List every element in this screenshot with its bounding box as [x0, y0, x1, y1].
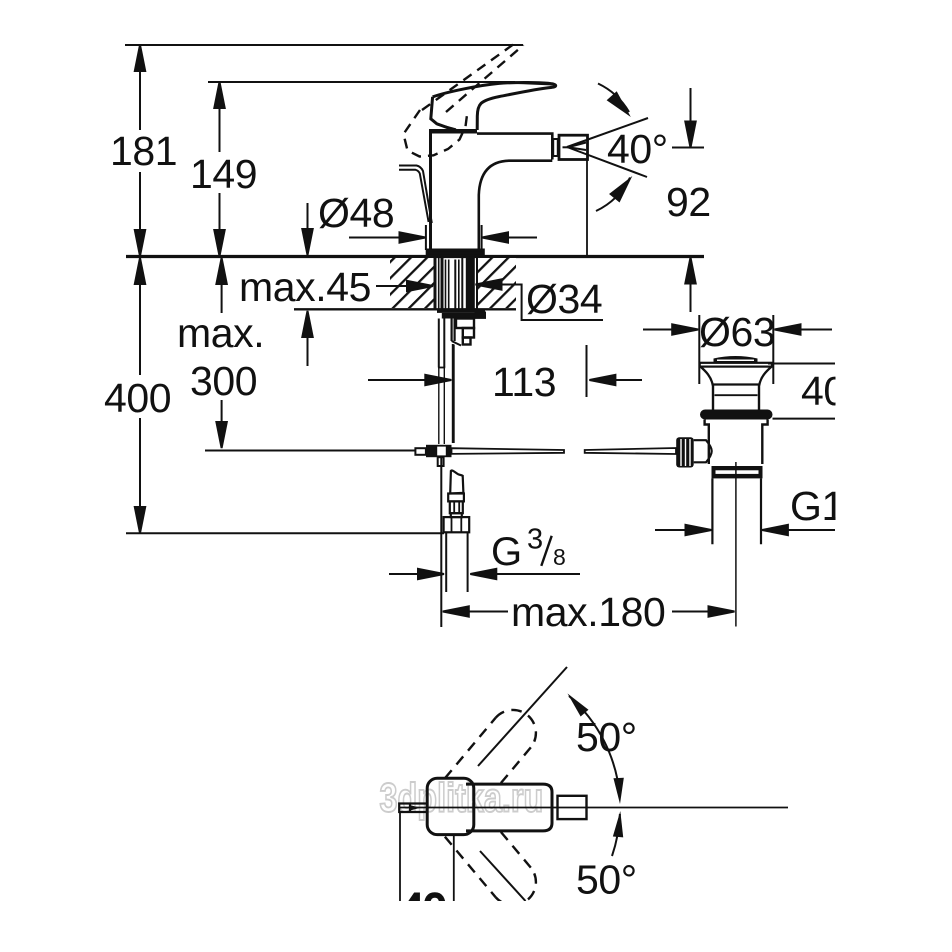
deck hatch left — [390, 258, 434, 308]
dimension 113 — [368, 344, 642, 443]
dimension line top 181 level — [125, 44, 523, 46]
svg-text:max.: max. — [177, 310, 264, 356]
hose below — [444, 470, 470, 592]
dimension max.300 vertical — [216, 258, 226, 448]
svg-text:8: 8 — [553, 544, 566, 570]
plan body square — [427, 778, 474, 834]
extension lines right 40 — [768, 364, 835, 419]
plan dashed lobe upper — [445, 710, 536, 784]
plan centerline — [400, 807, 788, 809]
dimension max.45 arrows — [302, 203, 433, 366]
spray cone 40deg — [563, 118, 649, 177]
plan arc lower — [612, 811, 625, 856]
shank through deck — [435, 258, 477, 309]
svg-text:max.180: max.180 — [511, 589, 665, 635]
J hook left — [399, 166, 432, 224]
svg-text:149: 149 — [190, 151, 257, 197]
svg-text:300: 300 — [190, 358, 257, 404]
svg-text:G: G — [491, 530, 522, 574]
FAUCET SIDE VIEW — [399, 41, 773, 627]
svg-text:3: 3 — [527, 524, 543, 556]
svg-text:92: 92 — [666, 179, 711, 225]
dimension 400 vertical — [135, 258, 145, 533]
plan 50 line upper — [478, 667, 567, 766]
dimension max.180 — [441, 455, 734, 627]
svg-text:max.45: max.45 — [239, 264, 371, 310]
plan lever — [466, 784, 552, 831]
handle lever solid — [431, 83, 556, 130]
dimension G1 arrows — [655, 525, 835, 535]
under deck fittings — [437, 309, 486, 444]
pull rod coupler — [415, 445, 451, 466]
dimension G3/8 arrows — [389, 569, 580, 579]
aerator box — [553, 135, 587, 255]
dimension Ø48 — [349, 225, 537, 250]
svg-text:Ø48: Ø48 — [318, 190, 394, 236]
svg-text:113: 113 — [492, 359, 556, 405]
deck hatch right — [478, 258, 517, 308]
plan nozzle left — [399, 804, 427, 813]
deck surface line — [126, 255, 704, 258]
plan dashed lobe lower — [445, 831, 536, 905]
svg-text:Ø63: Ø63 — [699, 309, 775, 355]
extension line 400 bottom — [126, 532, 444, 534]
dimension Ø63 — [643, 315, 832, 384]
svg-text:400: 400 — [104, 375, 171, 421]
body top bar — [429, 129, 477, 134]
svg-text:50°: 50° — [576, 714, 637, 760]
body outline — [431, 133, 553, 250]
svg-text:3dplitka.ru: 3dplitka.ru — [380, 775, 544, 820]
G3/8 slash — [541, 536, 551, 566]
waste popup assembly — [676, 356, 772, 627]
plan 50 line lower — [480, 851, 526, 901]
extension line max300 bottom to pull rod — [205, 450, 416, 452]
base flange — [427, 250, 484, 256]
leader Ø34 — [476, 279, 604, 320]
svg-text:Ø34: Ø34 — [526, 276, 602, 322]
pull rod horizontal — [452, 448, 677, 454]
dimension line 149 level — [208, 82, 553, 84]
arc arrows 40deg — [596, 84, 638, 212]
deck bottom line — [294, 308, 516, 310]
dimension 181 vertical — [135, 45, 145, 256]
dimension 149 vertical — [214, 82, 224, 256]
handle dashed raised — [404, 41, 524, 157]
svg-text:50°: 50° — [576, 857, 637, 903]
dimension 92 — [672, 88, 704, 312]
plan arc upper — [564, 690, 626, 804]
plan dim 40 lines — [400, 813, 454, 901]
svg-text:181: 181 — [110, 128, 177, 174]
plan aerator — [558, 796, 587, 819]
